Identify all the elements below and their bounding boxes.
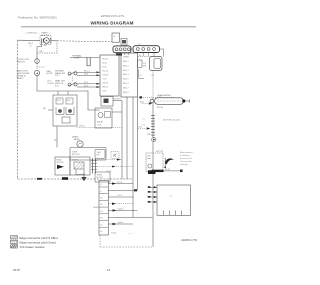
connector strip 2 bbox=[133, 46, 160, 53]
svg-text:W-12: W-12 bbox=[103, 62, 107, 64]
svg-text:GY-3: GY-3 bbox=[138, 126, 142, 128]
wire end arrows bbox=[97, 71, 100, 73]
wire from strip2 right bbox=[160, 49, 164, 57]
ground symbol bbox=[83, 173, 85, 177]
main motor dashed box bbox=[146, 153, 163, 171]
switch bank wires right bbox=[77, 72, 100, 87]
svg-text:VALVE: VALVE bbox=[74, 138, 81, 141]
svg-text:GN-22: GN-22 bbox=[103, 82, 109, 84]
thermal fuse wire bbox=[70, 56, 100, 58]
wires from relay box right bbox=[112, 111, 122, 113]
svg-text:Tub heater resistor.: Tub heater resistor. bbox=[20, 245, 46, 249]
lower left box (motor start) bbox=[55, 157, 70, 175]
svg-text:CAM: CAM bbox=[97, 151, 101, 154]
svg-text:MOTOR: MOTOR bbox=[57, 162, 65, 164]
drain valve inner box bbox=[95, 149, 105, 158]
svg-text:GY-44: GY-44 bbox=[111, 232, 116, 234]
small dashed box near bus bbox=[111, 152, 119, 159]
hatched box inside bbox=[74, 162, 84, 169]
svg-text:———: ——— bbox=[127, 233, 133, 235]
svg-text:WIRING DIAGRAM: WIRING DIAGRAM bbox=[91, 21, 134, 26]
svg-text:SWITCH: SWITCH bbox=[17, 61, 26, 63]
svg-text:RELAY: RELAY bbox=[97, 121, 104, 124]
svg-text:650 W: 650 W bbox=[157, 107, 163, 109]
svg-text:EPWD137A-17S: EPWD137A-17S bbox=[101, 14, 124, 18]
svg-text:W-51: W-51 bbox=[118, 195, 122, 197]
wire box B to latch box bbox=[138, 56, 150, 58]
svg-text:VIEW 2: VIEW 2 bbox=[17, 78, 25, 80]
svg-text:Edge connector pitch 5mm(: Edge connector pitch 5mm( bbox=[20, 240, 57, 244]
svg-text:TUB HEATER: TUB HEATER bbox=[158, 94, 171, 97]
svg-text:SEQ 7: SEQ 7 bbox=[123, 87, 129, 89]
wire from switch2 down and across bbox=[37, 76, 100, 110]
svg-text:H2: H2 bbox=[100, 204, 102, 206]
lower middle box bbox=[70, 157, 90, 175]
bus x=122 bbox=[121, 101, 123, 180]
svg-text:N.O.: N.O. bbox=[55, 75, 60, 77]
svg-text:WTR: WTR bbox=[57, 100, 62, 102]
push button switch row 1 bbox=[68, 71, 77, 76]
component below box A bbox=[101, 97, 113, 107]
box B (timer sequence) bbox=[121, 53, 138, 97]
black bar under motor box bbox=[152, 170, 164, 172]
svg-text:R-2: R-2 bbox=[142, 125, 145, 127]
svg-text:Motor protector: Motor protector bbox=[180, 151, 193, 154]
svg-text:M2: M2 bbox=[100, 218, 102, 220]
svg-text:GATE: GATE bbox=[72, 150, 78, 153]
connector ticks left of timer bbox=[41, 38, 43, 42]
svg-text:V-26: V-26 bbox=[103, 90, 107, 92]
dispenser stubs up bbox=[57, 91, 59, 95]
svg-text:BU-6: BU-6 bbox=[84, 85, 88, 87]
dispenser inner box 2 bbox=[66, 98, 73, 104]
dispenser dotted wire right bbox=[77, 127, 122, 129]
svg-text:12: 12 bbox=[107, 268, 111, 272]
right bus bbox=[152, 71, 154, 98]
svg-text:will reset auto-: will reset auto- bbox=[180, 160, 193, 163]
svg-text:MOTOR: MOTOR bbox=[156, 151, 164, 153]
svg-text:M1: M1 bbox=[100, 211, 102, 213]
dashed wires from drain area to bus bbox=[97, 159, 122, 161]
bus x=133 bbox=[132, 97, 134, 218]
console dashed box bottom edge bbox=[18, 178, 134, 180]
drain valve body box bbox=[70, 147, 106, 160]
black blob at bus top of this section bbox=[148, 170, 156, 174]
dispenser drop wire bbox=[56, 126, 58, 148]
console dashed box top edge bbox=[18, 39, 58, 42]
dispenser bottom box bbox=[62, 117, 70, 123]
dashed branch at y67 bbox=[37, 66, 46, 68]
svg-text:Publication No. 5995703291: Publication No. 5995703291 bbox=[18, 16, 57, 20]
svg-text:BK-10: BK-10 bbox=[103, 58, 108, 60]
svg-text:HI-LIMIT: HI-LIMIT bbox=[114, 99, 122, 101]
header rule bbox=[21, 26, 196, 28]
svg-text:N.O.: N.O. bbox=[55, 85, 60, 87]
strip1 stubs down to box A bbox=[117, 53, 129, 55]
console dashed box left edge bbox=[17, 40, 19, 179]
black tick on console bottom 1 bbox=[37, 178, 42, 180]
svg-text:matically.: matically. bbox=[180, 163, 188, 166]
bottom small box with text bbox=[95, 172, 110, 182]
svg-text:D2: D2 bbox=[100, 231, 102, 233]
wire timer drop bbox=[37, 41, 42, 58]
svg-text:TIMER: TIMER bbox=[123, 57, 130, 59]
dashed tub box bottom bbox=[99, 235, 101, 247]
dispenser left stub bbox=[48, 109, 53, 111]
svg-text:H1: H1 bbox=[100, 198, 102, 200]
wires bus to motor box bbox=[148, 186, 157, 203]
dashed wire into bus y=128.5 bbox=[138, 128, 147, 130]
svg-text:BK-50: BK-50 bbox=[118, 182, 123, 184]
connector strip 1 bbox=[113, 46, 131, 53]
wire right of black bar bbox=[164, 170, 181, 172]
timer motor circle bbox=[44, 38, 50, 44]
svg-text:FUSE: FUSE bbox=[74, 58, 80, 60]
dashed wire into bus y=103.5 bbox=[142, 103, 150, 105]
tub heater junction circle bbox=[150, 99, 153, 102]
svg-text:SEQ 1: SEQ 1 bbox=[123, 61, 129, 63]
svg-text:R-14: R-14 bbox=[103, 66, 107, 68]
svg-text:SEQ 2: SEQ 2 bbox=[123, 65, 129, 67]
small dark box right of tall box bbox=[121, 39, 127, 46]
door switch circle 2 bbox=[34, 70, 39, 75]
svg-text:BU-16: BU-16 bbox=[103, 70, 108, 72]
svg-text:MOTOR: MOTOR bbox=[41, 35, 49, 37]
legend row 1 bbox=[11, 236, 58, 240]
svg-text:W-41: W-41 bbox=[84, 74, 88, 76]
dashed link between rows bbox=[72, 77, 74, 82]
svg-text:the motor and: the motor and bbox=[180, 157, 192, 160]
dispenser cup 2 bbox=[66, 107, 74, 115]
timer motor dashed box bbox=[40, 36, 51, 45]
note paragraph bbox=[180, 151, 193, 166]
bus x=137.5 bbox=[137, 97, 139, 190]
svg-text:OR-22: OR-22 bbox=[79, 126, 85, 128]
box A (wire code list) bbox=[100, 55, 119, 96]
svg-text:Y-1: Y-1 bbox=[142, 119, 145, 121]
dispenser inner box 1 bbox=[56, 98, 63, 104]
right motor box bbox=[157, 185, 191, 215]
svg-text:SW: SW bbox=[143, 65, 146, 67]
cup shape in drain box bottom bbox=[76, 170, 84, 175]
push button switch row 2 bbox=[68, 82, 77, 87]
dashed link between switches bbox=[36, 63, 38, 70]
svg-text:SW: SW bbox=[97, 155, 100, 157]
black tick on console bottom 2 bbox=[62, 177, 68, 180]
black arrow in left box bbox=[57, 165, 64, 169]
left stub bbox=[93, 206, 99, 208]
svg-text:BK-8: BK-8 bbox=[140, 102, 144, 104]
edge connector ladder bbox=[99, 180, 108, 235]
drain valve circle bbox=[77, 141, 83, 147]
svg-text:START: START bbox=[72, 159, 79, 162]
svg-text:SEQ 3: SEQ 3 bbox=[123, 70, 129, 72]
heater end dot bbox=[182, 99, 185, 102]
dotted line y=97.5 bbox=[139, 97, 174, 99]
svg-text:DOOR: DOOR bbox=[48, 83, 55, 85]
strip2 stubs down bbox=[143, 53, 154, 57]
ladder wires bbox=[108, 183, 133, 185]
svg-text:NOTE: NOTE bbox=[47, 73, 53, 75]
svg-text:SEQ 4: SEQ 4 bbox=[123, 74, 129, 76]
svg-text:SEQ 8: SEQ 8 bbox=[123, 92, 129, 94]
svg-text:MOTOR: MOTOR bbox=[72, 154, 80, 156]
bus x=127 bbox=[126, 97, 128, 179]
thermal fuse U component bbox=[87, 57, 90, 65]
svg-text:OR-18: OR-18 bbox=[103, 74, 109, 76]
dispenser assembly box bbox=[53, 95, 77, 126]
svg-text:Lighter: Lighter bbox=[118, 221, 124, 224]
wire dashed branch to console top bbox=[37, 42, 57, 53]
box with circle (heater relay) bbox=[95, 108, 112, 128]
dispenser cup 1 bbox=[56, 107, 64, 115]
tub heater element pill bbox=[155, 98, 184, 105]
svg-text:5378: 5378 bbox=[13, 268, 20, 272]
small box right of box B bbox=[138, 60, 143, 67]
black swoosh (motor rotor icon) bbox=[165, 158, 174, 164]
svg-text:Edge connector pitch 5.08m(: Edge connector pitch 5.08m( bbox=[20, 236, 58, 240]
legend row 2 bbox=[11, 240, 57, 244]
svg-text:L1: L1 bbox=[100, 184, 102, 186]
svg-text:D1: D1 bbox=[100, 224, 102, 226]
legend row 3 bbox=[11, 245, 46, 249]
svg-text:is internal to: is internal to bbox=[180, 154, 190, 157]
svg-text:ADW94 CTD: ADW94 CTD bbox=[181, 238, 197, 242]
svg-text:SEQ 6: SEQ 6 bbox=[123, 83, 129, 85]
top tall box bbox=[112, 33, 120, 42]
svg-text:BK-12: BK-12 bbox=[84, 71, 89, 73]
tick right of timer bbox=[50, 38, 52, 43]
svg-text:Lighter: Lighter bbox=[118, 208, 124, 211]
svg-text:(MOTOR 100-120): (MOTOR 100-120) bbox=[163, 120, 180, 122]
svg-text:BR-24: BR-24 bbox=[103, 86, 108, 88]
svg-text:W-GY: W-GY bbox=[165, 169, 171, 171]
svg-text:— CONSOLE —: — CONSOLE — bbox=[24, 32, 41, 34]
door latch rounded box bbox=[150, 57, 163, 71]
svg-text:COIL: COIL bbox=[97, 124, 101, 126]
door switch circle 1 bbox=[35, 59, 40, 64]
svg-text:Y-20: Y-20 bbox=[103, 78, 107, 80]
svg-text:BLOCK: BLOCK bbox=[97, 177, 104, 179]
connector double bars bbox=[92, 158, 94, 174]
black blob under strip1 bbox=[116, 53, 122, 55]
bus tick ladder bbox=[151, 116, 155, 136]
svg-text:V-52: V-52 bbox=[84, 82, 88, 84]
svg-text:SEQ 5: SEQ 5 bbox=[123, 79, 129, 81]
